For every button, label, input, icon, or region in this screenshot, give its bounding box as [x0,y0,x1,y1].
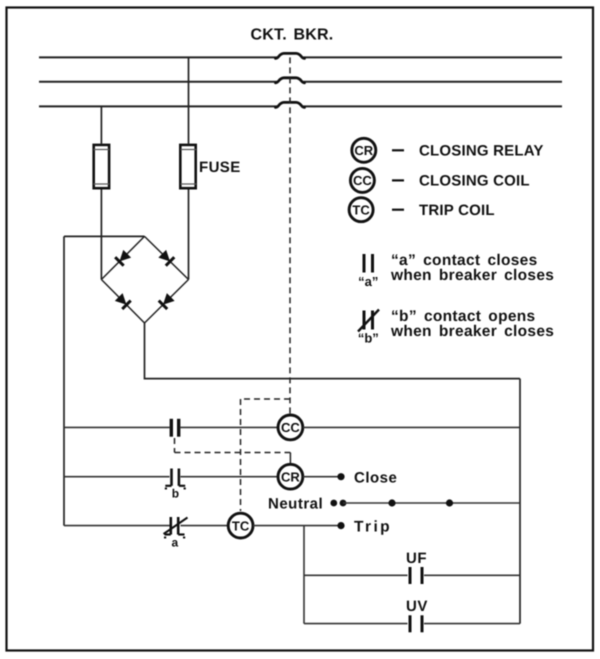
legend circle CC [350,168,374,192]
svg-text:FUSE: FUSE [199,159,241,176]
svg-text:UV: UV [406,598,428,615]
UV rung wire (left) [304,623,408,625]
CC rung wire (middle) [181,426,278,428]
trip coil TC [228,513,253,538]
circuit breaker pole contact on L1 [276,53,305,58]
svg-text:Trip: Trip [354,518,392,535]
breaker "a" auxiliary contact (shown closed with slash) [164,517,188,550]
wire: trip bus down to UF/UV branch [303,526,305,624]
Neutral terminal dots [330,500,346,507]
legend text for "b" contact [390,308,554,340]
svg-text:CLOSING RELAY: CLOSING RELAY [419,143,544,160]
legend circle TC [349,198,373,222]
CR rung wire to Close terminal [303,476,339,478]
dashed link CR contact to CR coil [175,438,291,464]
bus line L2 [39,81,562,83]
diode D2 (top-right arm) [158,249,174,265]
closing relay CR [278,464,303,489]
CC rung wire (left) [64,426,170,428]
legend circle CR [352,138,376,162]
wire: tap from L1 down to fuse F2 [188,57,190,143]
svg-text:TC: TC [232,518,250,533]
svg-text:Neutral: Neutral [268,496,323,513]
svg-text:CC: CC [353,173,372,188]
CR rung wire (middle) [181,476,279,478]
Neutral wire [343,502,520,504]
legend "b" contact symbol [358,310,379,346]
svg-text:a: a [171,536,178,550]
CC rung wire (right) [303,426,520,428]
UF rung wire (right) [424,574,520,576]
svg-text:TC: TC [352,202,370,217]
svg-text:“b”: “b” [358,331,379,346]
legend dash for CR [392,149,404,151]
legend dash for TC [392,209,404,211]
diode D4 (bottom-right arm) [159,293,175,309]
TC rung wire (left) [64,525,170,527]
svg-text:Close: Close [354,470,397,487]
fuse F1 [94,145,110,188]
svg-text:UF: UF [406,550,427,567]
wire: bridge bottom vertex down and right to positive rail [145,323,521,379]
diode D1 (top-left arm) [115,249,131,265]
svg-text:CKT. BKR.: CKT. BKR. [251,27,334,44]
wire: fuse F1 to bridge left vertex [100,190,102,280]
wire: fuse F2 to bridge right vertex [188,190,190,280]
UF contact [410,567,422,584]
legend "a" contact symbol [358,254,378,289]
wire: right rail [519,379,521,624]
svg-text:CC: CC [281,420,300,435]
Close terminal dot [337,473,344,480]
fuse F2 [180,145,196,188]
TC rung wire to Trip terminal [253,525,339,527]
circuit breaker pole contact on L2 [276,78,305,83]
svg-text:when breaker closes: when breaker closes [390,323,554,340]
svg-text:“a”: “a” [358,274,378,289]
TC rung wire (middle) [181,525,229,527]
diode D3 (bottom-left arm) [114,293,130,309]
UV contact [410,615,422,632]
bus line L3 [39,105,562,107]
CR rung wire (left) [64,476,170,478]
closing coil CC [278,415,303,440]
circuit breaker pole contact on L3 [276,102,305,107]
junction dot on neutral wire at right [446,499,453,506]
UF rung wire (left) [304,574,408,576]
junction dot on neutral wire [388,499,395,506]
svg-text:CLOSING COIL: CLOSING COIL [419,173,530,190]
svg-text:CR: CR [354,143,373,158]
legend text for "a" contact [390,252,554,284]
svg-text:TRIP COIL: TRIP COIL [419,202,495,219]
wire: tap from L3 down to fuse F1 [100,106,102,143]
Trip terminal dot [337,522,344,529]
svg-text:b: b [172,487,179,501]
wire: bridge top vertex to left rail [64,235,145,237]
wire: left rail [63,236,65,525]
rectifier bridge diamond [101,236,188,323]
dashed link breaker mechanism to TC coil [241,399,291,511]
UV rung wire (right) [424,623,520,625]
breaker "b" auxiliary contact [165,469,186,501]
legend dash for CC [392,179,404,181]
svg-text:when breaker closes: when breaker closes [390,267,554,284]
bus line L1 [39,56,562,58]
CR relay contact on CC rung [171,419,178,437]
breaker mechanism dashed link (vertical) [289,57,291,415]
svg-text:CR: CR [281,470,300,485]
